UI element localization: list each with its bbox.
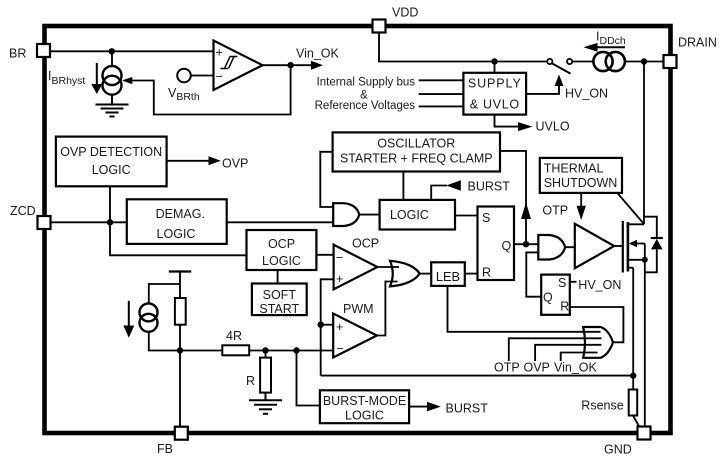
wire oscillator down to LOGIC [402,172,404,200]
svg-text:R: R [560,300,569,314]
svg-text:BURST: BURST [468,180,511,194]
node comparator output [287,62,293,68]
wire drain down to MOSFET [643,62,645,225]
svg-text:OCP: OCP [268,237,295,251]
wire oscillator to and gate [320,152,333,207]
svg-text:LOGIC: LOGIC [157,227,196,241]
resistor R [265,351,267,358]
border frame [45,26,671,433]
wire LOGIC to S [455,215,478,217]
svg-text:OVP DETECTION: OVP DETECTION [60,145,162,159]
svg-text:VBRth: VBRth [168,86,200,103]
svg-text:R: R [246,374,255,388]
wire latch2 Q to and gate [526,252,541,296]
wire or gate to LEB [420,273,432,275]
svg-text:OSCILLATOR: OSCILLATOR [377,137,455,151]
block OCP LOGIC [247,230,317,270]
pin DRAIN [664,55,677,68]
block SOFT START [252,284,307,316]
VBRth source [177,69,191,83]
wire comparator output Vin_OK arrow [263,64,313,66]
pin VDD [373,20,386,33]
op-amp OCP comparator [334,245,378,290]
svg-text:OTP: OTP [494,360,520,374]
wire PWM out to or gate [377,282,398,336]
wire FB pin up [179,351,181,428]
block SUPPLY & UVLO [463,73,526,115]
node Q junction [523,241,529,247]
wire LEB down to or gate [448,286,601,332]
wire VDD down and across [379,33,548,62]
wire 4R to PWM [249,350,333,352]
wire tap to PWM+ [321,324,333,326]
svg-text:OVP: OVP [222,157,248,171]
block DEMAG LOGIC [127,199,227,244]
svg-text:−: − [216,70,223,84]
resistor Rsense [629,390,638,416]
svg-text:Q: Q [502,239,512,253]
ground R [265,393,267,400]
wire OVP output arrow [167,160,209,162]
svg-text:HV_ON: HV_ON [578,278,621,292]
svg-text:VDD: VDD [392,6,418,20]
svg-text:DRAIN: DRAIN [678,36,717,50]
svg-text:SOFT: SOFT [263,288,297,302]
resistor internal top [175,298,186,325]
wire Q output [514,243,538,245]
wire bus line 1 [419,79,464,81]
svg-text:IDDch: IDDch [596,30,626,48]
node sense junction [630,372,636,378]
wire UVLO output arrow [495,115,520,127]
wire HV_ON stub [570,281,577,283]
wire sense to OCP+ [321,279,334,375]
svg-text:Vin_OK: Vin_OK [296,47,340,61]
svg-text:OCP: OCP [352,237,379,251]
wire to current source [111,51,113,66]
pin GND [638,427,651,440]
svg-text:BURST-MODE: BURST-MODE [323,394,406,408]
svg-text:STARTER + FREQ CLAMP: STARTER + FREQ CLAMP [340,151,493,165]
svg-text:−: − [337,341,344,355]
block LOGIC [380,200,455,230]
block LEB [431,262,465,286]
svg-text:BURST: BURST [446,402,489,416]
wire VBRth to comparator [191,75,214,77]
wire BURST input arrow [431,186,447,200]
node drain junction [641,58,647,64]
svg-text:HV_ON: HV_ON [565,87,608,101]
resistor 4R [222,345,249,355]
wire and gate to driver [565,246,575,248]
svg-text:LOGIC: LOGIC [345,409,384,423]
wire sense line down [632,268,634,390]
svg-text:UVLO: UVLO [536,120,570,134]
wire OTP arrow down [580,193,582,207]
or gate U4 [390,261,420,287]
driver buffer [575,224,614,268]
svg-text:THERMAL: THERMAL [544,162,604,176]
svg-text:& UVLO: & UVLO [470,98,520,112]
svg-text:LOGIC: LOGIC [390,208,429,222]
wire ZCD down to OCP LOGIC [110,222,247,255]
current source IDDch [593,52,612,71]
wire OVP input [535,345,601,361]
pin FB [175,427,188,440]
wire OTP input [509,338,602,361]
wire DEMAG to and gate [227,221,334,223]
svg-text:SUPPLY: SUPPLY [468,77,522,91]
svg-text:+: + [336,320,343,334]
wire into SUPPLY block [494,62,496,73]
wire HV_ON control arrow [526,86,559,94]
wire burst-mode tap [297,351,320,406]
wire LEB to R [465,273,478,275]
wire BR pin to comparator [50,50,214,52]
op-amp PWM comparator [333,314,377,358]
wire divider to 4R [180,350,222,352]
or gate U6 [583,327,613,358]
node VDD supply tap [491,58,497,64]
wire driver to gate [614,245,623,247]
svg-text:DEMAG.: DEMAG. [156,207,205,221]
svg-text:GND: GND [604,443,632,457]
arrow FB source direction [128,301,130,326]
svg-text:PWM: PWM [343,302,374,316]
wire bus line 2 [419,93,464,95]
transistor Q1 MOSFET [622,221,624,273]
supply rail bar [169,270,192,272]
svg-text:SHUTDOWN: SHUTDOWN [544,176,618,190]
wire branch to current source [149,284,180,304]
node ZCD junction [107,219,113,225]
svg-text:START: START [259,302,299,316]
node PWM tap [318,322,324,328]
wire bus line 3 [419,105,464,107]
svg-text:Reference Voltages: Reference Voltages [315,100,416,112]
pin ZCD [38,216,51,229]
pin BR [37,44,50,57]
diode body [644,217,657,238]
block BURST-MODE LOGIC [320,390,409,423]
wire OCP out to or gate [377,266,399,268]
svg-text:OVP: OVP [524,360,550,374]
wire or gate to latch R [570,307,624,342]
and gate U3 [538,235,565,260]
op-amp BR comparator [214,41,263,91]
svg-text:LEB: LEB [436,269,460,284]
svg-text:FB: FB [157,442,173,456]
wire and gate to LOGIC [359,214,380,216]
wire thermal diag to drain [617,193,644,224]
svg-text:BR: BR [9,47,26,61]
wire source to GND pin [644,260,646,427]
arrow IDDch direction [597,46,626,48]
wire OCP LOGIC to SOFT START [277,270,279,284]
svg-text:Q: Q [543,290,553,304]
node BR junction [109,48,115,54]
wire ZCD to DEMAG [50,221,127,223]
and gate U1 [333,203,359,226]
wire switch to IDDch [572,61,593,63]
wire OCP LOGIC to comparator [316,254,333,256]
latch U2 SR [478,207,515,281]
block OVP DETECTION LOGIC [56,137,167,187]
svg-text:Rsense: Rsense [581,399,623,413]
svg-text:−: − [336,251,343,265]
svg-text:4R: 4R [226,329,242,343]
block OSCILLATOR STARTER + FREQ CLAMP [333,132,500,171]
node burst tap [293,347,299,353]
switch HV_ON [547,59,552,64]
current source IBRhyst [103,66,122,85]
svg-text:S: S [482,211,490,225]
latch U5 HV_ON [541,275,570,315]
svg-text:Internal Supply bus: Internal Supply bus [317,77,416,89]
ground [111,95,113,105]
wire IDDch to DRAIN [625,61,664,63]
node FB junction [177,347,183,353]
svg-text:IBRhyst: IBRhyst [48,69,85,87]
arrow IBRhyst direction [96,63,98,85]
current source FB [140,303,158,321]
wire BURST output arrow [409,406,428,408]
wire feedback to current source with arrow [132,65,291,114]
svg-text:+: + [336,272,343,286]
wire Vin_OK input [561,353,598,362]
block THERMAL SHUTDOWN [540,158,622,193]
svg-text:Vin_OK: Vin_OK [554,360,598,374]
wire current sense line [321,375,634,377]
svg-text:OTP: OTP [542,203,568,217]
svg-text:+: + [216,46,223,60]
svg-text:R: R [482,266,491,280]
wire current source to node [149,331,180,350]
node R tap [262,347,268,353]
svg-text:ZCD: ZCD [10,204,36,218]
wire oscillator sync from Q [500,151,526,244]
svg-text:S: S [558,276,566,290]
svg-text:LOGIC: LOGIC [262,254,301,268]
svg-text:LOGIC: LOGIC [92,163,131,177]
wire OVP block down to ZCD [109,186,111,222]
